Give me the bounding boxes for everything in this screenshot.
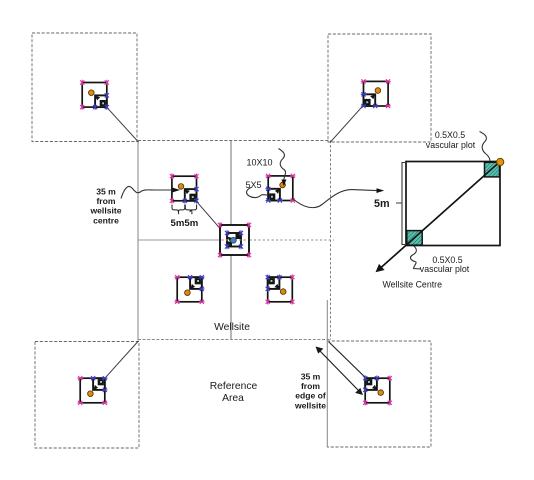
label: 35 m from wellsite centre bbox=[89, 187, 121, 226]
svg-text:0.5X0.5: 0.5X0.5 bbox=[435, 130, 465, 140]
plot: wellsite lower-left bbox=[175, 275, 205, 304]
wellsite square left edge (solid grey) bbox=[137, 141, 139, 341]
svg-text:wellsite: wellsite bbox=[294, 400, 326, 410]
label: 35 m from edge of wellsite bbox=[294, 372, 326, 411]
squiggle: top 0.5X0.5 label to vascular plot bbox=[480, 132, 491, 161]
horizontal dashes through centre plot bbox=[222, 239, 248, 241]
squiggle arrow: 5x5 plot to enlarged plot (5m) bbox=[293, 190, 378, 208]
reference area square top-right bbox=[328, 34, 431, 142]
double-headed 35m arrow bbox=[316, 347, 362, 394]
vascular plot bottom-left bbox=[407, 231, 422, 246]
plot: top-right reference bbox=[361, 79, 391, 108]
svg-text:from: from bbox=[301, 381, 320, 391]
reference area square top-left bbox=[32, 33, 137, 142]
squiggle: bottom 0.5X0.5 label to vascular plot bbox=[410, 246, 421, 270]
squiggle: 35m-from-wellsite-centre label to 5m5m plot bbox=[121, 186, 173, 198]
wire: wellsite corner to bottom-right plot bbox=[329, 342, 369, 381]
svg-text:from: from bbox=[96, 196, 115, 206]
plot: wellsite lower-right bbox=[266, 275, 295, 305]
grey edge of bottom-right reference square bbox=[326, 300, 328, 447]
svg-text:vascular plot: vascular plot bbox=[420, 264, 470, 274]
5m bracket bbox=[396, 163, 406, 245]
wire: 5m5m plot to centre plot bbox=[196, 201, 226, 235]
wire: top-right plot to wellsite corner bbox=[330, 105, 363, 142]
svg-text:vascular plot: vascular plot bbox=[426, 140, 476, 150]
svg-text:5m5m: 5m5m bbox=[171, 218, 199, 229]
reference area square bottom-right bbox=[327, 341, 431, 447]
5m5m braces under plot bbox=[172, 205, 185, 215]
plot: bottom-left reference bbox=[78, 376, 108, 405]
plot: top-left reference bbox=[80, 80, 109, 110]
svg-text:Wellsite Centre: Wellsite Centre bbox=[383, 279, 443, 289]
plot: wellsite 5x5 / 10x10 bbox=[266, 174, 296, 203]
plot: wellsite centre bbox=[218, 222, 251, 257]
svg-text:35 m: 35 m bbox=[96, 187, 116, 197]
svg-text:Reference: Reference bbox=[210, 381, 258, 392]
squiggle: 5X5 label to plot bbox=[247, 188, 269, 198]
vertical centre line bbox=[230, 141, 232, 340]
vascular plot top-right bbox=[485, 162, 500, 177]
squiggle: 10X10 label down into plot bbox=[279, 149, 286, 181]
wellsite square bottom edge bbox=[138, 339, 331, 341]
plot: wellsite 5m5m bbox=[170, 174, 199, 204]
wire: top-left plot to wellsite corner bbox=[107, 107, 139, 142]
enlarged 5m plot square bbox=[406, 162, 500, 246]
wire: bottom-left plot to wellsite corner bbox=[105, 341, 138, 378]
svg-text:centre: centre bbox=[93, 215, 119, 225]
svg-text:wellsite: wellsite bbox=[89, 206, 121, 216]
horizontal centre line left (solid) bbox=[138, 239, 220, 241]
reference area square bottom-left bbox=[35, 342, 139, 449]
plot: bottom-right reference bbox=[363, 376, 392, 406]
svg-text:edge of: edge of bbox=[295, 391, 326, 401]
svg-text:Area: Area bbox=[222, 393, 244, 404]
svg-text:35 m: 35 m bbox=[301, 372, 321, 382]
wellsite square top edge (dashed) bbox=[138, 140, 331, 142]
orange peg at enlarged plot corner bbox=[497, 158, 504, 165]
horizontal centre line right (dashed) bbox=[250, 239, 335, 241]
svg-text:10X10: 10X10 bbox=[247, 157, 273, 167]
wellsite square right edge (dashed) bbox=[330, 141, 332, 340]
svg-text:5m: 5m bbox=[374, 198, 390, 210]
svg-text:5X5: 5X5 bbox=[246, 180, 262, 190]
svg-text:Wellsite: Wellsite bbox=[214, 322, 250, 333]
diagonal arrow to Wellsite Centre bbox=[381, 162, 500, 268]
